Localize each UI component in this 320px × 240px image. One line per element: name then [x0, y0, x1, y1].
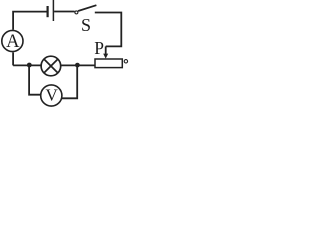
svg-text:V: V — [45, 85, 58, 104]
svg-text:S: S — [81, 15, 91, 35]
svg-text:P: P — [94, 38, 104, 58]
svg-text:A: A — [6, 32, 20, 52]
